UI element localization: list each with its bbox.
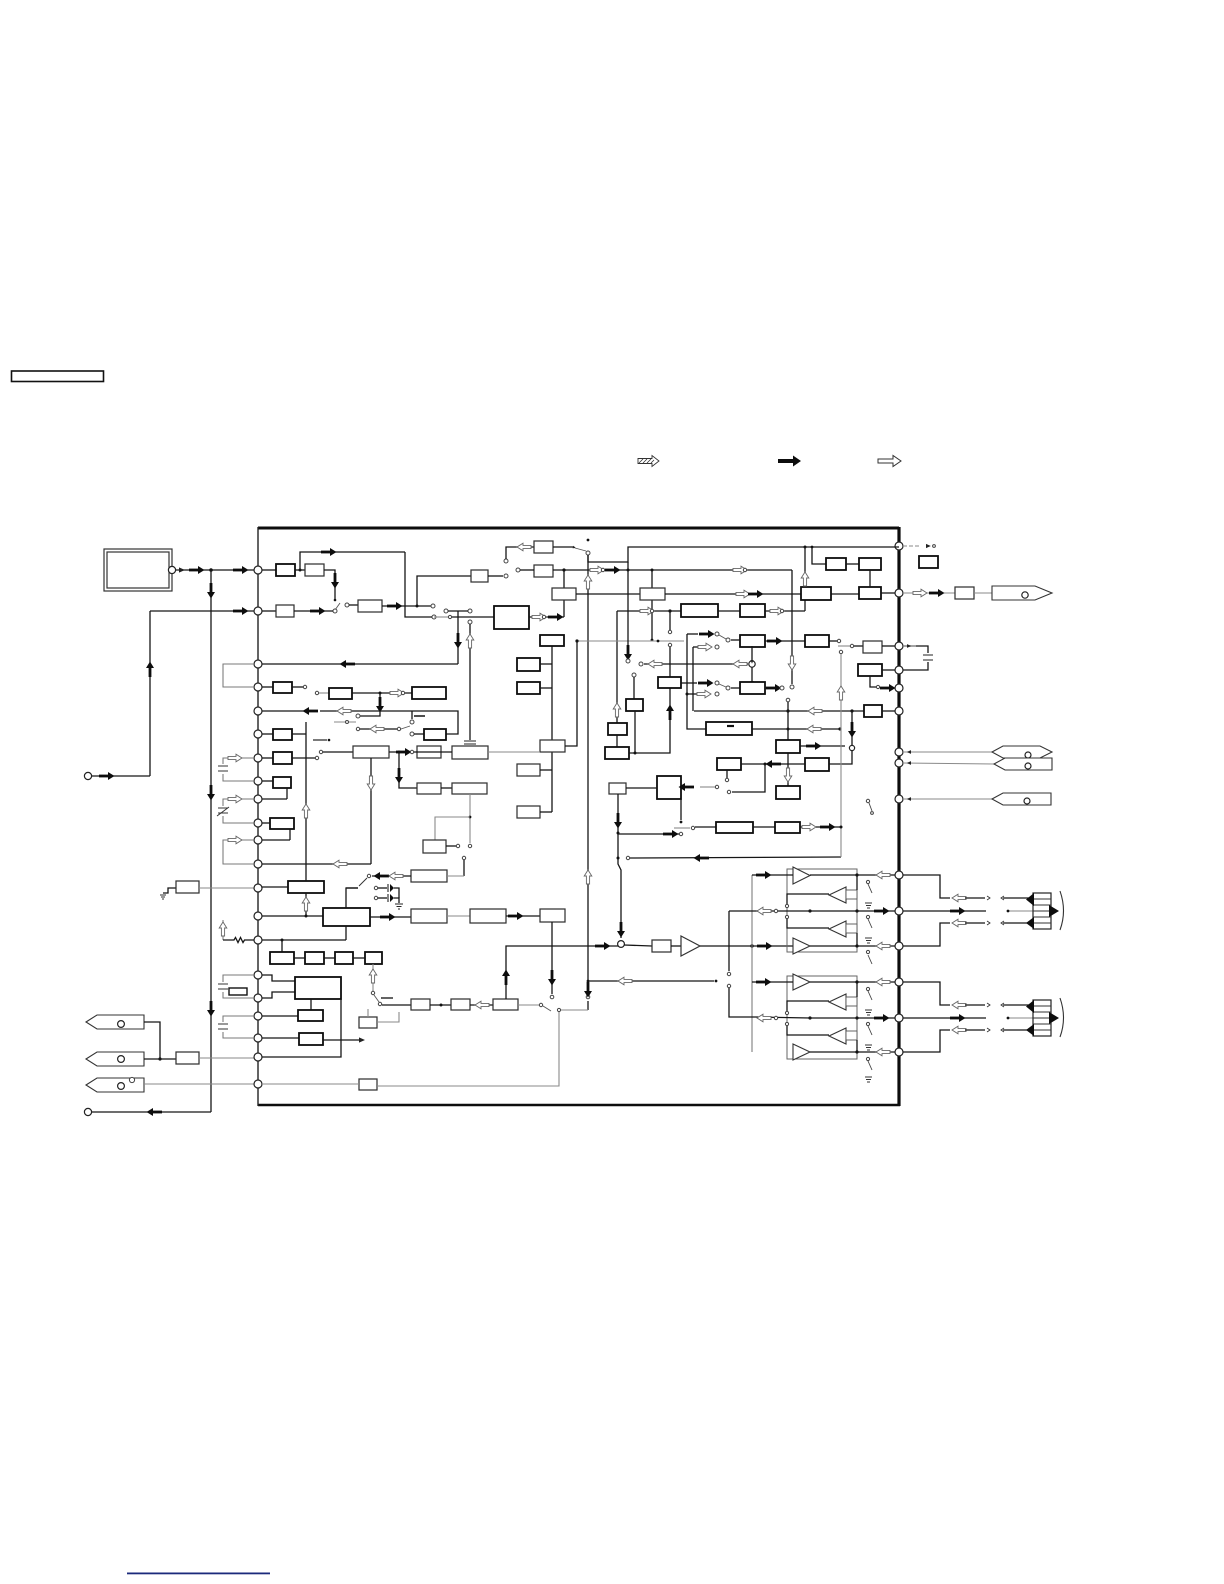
flow arrow A73 — [807, 725, 821, 733]
vertical x=470 — [468, 620, 472, 624]
wire W78 — [294, 957, 305, 959]
junction N103 — [787, 728, 790, 731]
pin646 stub out — [903, 645, 916, 647]
wire W33 — [804, 547, 806, 587]
signal arrow A71 — [666, 705, 674, 721]
wire W121 — [669, 611, 671, 630]
box row641 b — [805, 635, 829, 647]
wire W95 — [446, 845, 456, 847]
signal arrow A59 — [396, 748, 412, 756]
ch1 speaker connector — [1026, 891, 1064, 930]
wire W66 — [286, 788, 288, 799]
wire W140 — [753, 826, 775, 828]
symbol W202 — [1001, 1003, 1004, 1007]
signal arrow A11 — [321, 548, 337, 556]
switch contact N29 — [333, 609, 337, 613]
wire W10 — [144, 1058, 176, 1060]
flow arrow A52 — [228, 795, 242, 803]
symbol W104 — [387, 894, 389, 902]
ch1 out row 911 — [729, 910, 810, 912]
junction N54 — [668, 609, 671, 612]
wire W76 — [345, 926, 347, 940]
box B12 — [517, 682, 540, 694]
symbol W211 — [1026, 1000, 1034, 1013]
grey drop from box to switch 846 — [469, 794, 471, 843]
legend solid arrow — [778, 456, 801, 467]
row 940 — [262, 939, 346, 941]
row 711 wire to pin — [262, 710, 316, 712]
wire W161 — [868, 884, 872, 893]
box B25 — [776, 786, 800, 799]
wire W49 — [292, 686, 303, 688]
switch contact N127 — [785, 915, 788, 918]
switch contact N68 — [780, 686, 784, 690]
box osc lower — [534, 565, 553, 577]
IC left border — [257, 527, 259, 1106]
junction N84 — [281, 939, 284, 942]
switch contact N77 — [410, 732, 414, 736]
arrowhead A88 — [926, 544, 931, 548]
wire W98 — [346, 887, 358, 889]
signal arrow A110 — [950, 1014, 966, 1022]
box B20 — [540, 909, 565, 922]
box B23 — [493, 999, 518, 1010]
wire W86 — [540, 687, 552, 689]
ch2 out rows — [857, 981, 895, 983]
wire W130 — [880, 687, 894, 689]
flow arrow A75 — [808, 707, 822, 715]
wire W150 — [624, 945, 652, 946]
wire W155 — [856, 875, 858, 890]
box V row 764 — [805, 758, 829, 771]
box B14 — [517, 806, 540, 818]
flow arrow A49 — [337, 707, 351, 715]
symbol W149 — [992, 793, 1051, 805]
wire W110 — [374, 995, 379, 1002]
symbol W165 — [865, 938, 872, 943]
signal arrow A107 — [950, 907, 966, 915]
switch lever — [359, 878, 367, 886]
switch contact N35 — [504, 559, 508, 563]
mute switch column ch2 — [868, 991, 872, 1070]
arrowhead A16 — [573, 546, 577, 549]
pin546 stub — [903, 545, 921, 547]
box left row752 — [353, 746, 389, 758]
legend hatched arrow — [638, 456, 659, 467]
wire W156 — [787, 894, 829, 904]
wire W178 — [868, 1061, 872, 1070]
wire W138 — [626, 787, 657, 789]
ch1 wires to connector — [903, 875, 950, 898]
wire W54 — [414, 733, 424, 735]
wire W120 — [616, 735, 618, 747]
wire W143 — [840, 654, 842, 857]
video output flag — [992, 586, 1052, 600]
IC right border — [897, 527, 900, 1106]
box pin687 — [273, 682, 292, 693]
wire W55 — [334, 721, 356, 723]
switch contact N95 — [378, 1002, 381, 1005]
switch contact N55 — [780, 609, 783, 612]
signal arrow A83 — [663, 830, 679, 838]
row916 into IF box — [262, 915, 323, 917]
switch contact N78 — [346, 721, 349, 724]
connector flag B — [86, 1052, 258, 1066]
ch1 group outline — [787, 869, 857, 952]
wire W52 — [320, 710, 412, 712]
signal arrow A72 — [698, 679, 714, 687]
wire W205 — [903, 1030, 950, 1052]
flow arrow A68 — [475, 1001, 489, 1009]
wire W80 — [353, 957, 365, 959]
symbol W196 — [1049, 905, 1059, 917]
symbol W146 — [992, 746, 1052, 758]
wire W167 — [752, 981, 793, 983]
ch2 amp B3 inverted — [829, 1028, 846, 1044]
symbol W124 — [727, 725, 734, 727]
switch contact N40 — [601, 568, 604, 571]
node N3 — [118, 1021, 125, 1028]
junction N118 — [840, 826, 843, 829]
wire W18 — [488, 575, 503, 577]
signal arrow A3 — [233, 566, 249, 574]
junction N58 — [657, 640, 660, 643]
big box VCO — [494, 606, 529, 629]
box B11 — [299, 1033, 323, 1045]
vertical x=693 — [692, 647, 694, 711]
junction N141 — [855, 1016, 858, 1019]
wire W132 — [851, 711, 853, 745]
node N22 — [895, 748, 903, 756]
ch2 wires to connector — [903, 982, 950, 1005]
signal arrow A7 — [233, 607, 249, 615]
wire W56 — [360, 728, 397, 730]
flow arrow A98 — [757, 907, 771, 915]
symbol W214 — [1060, 998, 1064, 1037]
bus x=588 main vertical — [587, 555, 589, 995]
switch contact N146 — [866, 1057, 869, 1060]
switch contact N119 — [933, 545, 936, 548]
wire feedback row 552 — [300, 552, 405, 570]
switch contact N147 — [871, 812, 874, 815]
symbol W209 — [1001, 1028, 1004, 1032]
box B2 — [176, 1052, 199, 1064]
wire W119 — [262, 1083, 359, 1085]
symbol W83 — [218, 1024, 228, 1029]
junction N56 — [811, 546, 814, 549]
junction N73 — [379, 692, 382, 695]
switch contact N69 — [626, 659, 630, 663]
switch contact N76 — [410, 720, 414, 724]
ch1 out row 946 — [857, 945, 895, 947]
switch contact N60 — [726, 638, 730, 642]
flow arrow A38 — [697, 690, 711, 698]
wire W145 — [974, 592, 992, 594]
node N16 — [254, 994, 262, 1002]
arrowhead A43 — [750, 681, 753, 685]
node N108 — [849, 745, 854, 750]
external input node y=776 — [84, 772, 91, 779]
wire W61 — [262, 757, 273, 759]
wire W75 — [346, 888, 358, 908]
grey jog to next — [838, 645, 850, 647]
white arrow pair row 694 — [687, 693, 697, 695]
junction N104 — [838, 727, 841, 730]
switch contact N49 — [468, 609, 472, 613]
wire up to row547 — [506, 547, 534, 559]
flow arrow A84 — [802, 823, 816, 831]
flow arrow A35 — [801, 572, 809, 586]
wire W63 — [323, 751, 353, 753]
signal arrow A101 — [756, 978, 772, 986]
ch1 amp A4 — [793, 938, 810, 954]
vertical bus x=211 — [210, 570, 212, 1112]
symbol W197 — [1026, 917, 1034, 929]
flow arrow A56 — [302, 897, 310, 911]
switch contact N61 — [715, 692, 719, 696]
box B8 — [365, 952, 382, 964]
switch contact N59 — [715, 645, 719, 649]
symbol W60 — [313, 739, 327, 741]
vertical x=617 — [616, 611, 618, 723]
symbol W194 — [1033, 899, 1051, 923]
drop x=458 to row 664 — [457, 611, 459, 664]
symbol W210 — [1033, 1006, 1051, 1030]
symbol W2 — [639, 459, 654, 463]
wire W25 — [469, 624, 471, 740]
node N10 — [254, 707, 262, 715]
wire W51 — [352, 692, 412, 694]
wire W206 — [965, 1029, 985, 1031]
switch contact N90 — [462, 856, 465, 859]
flow arrow A23 — [584, 870, 592, 884]
monitor (CRT) block — [104, 549, 176, 591]
node N25 — [895, 978, 903, 986]
wire W127 — [882, 710, 895, 712]
x=628 vertical w arrow to contact 664 — [627, 562, 629, 658]
flag pin 799 — [903, 798, 992, 800]
switch lever row 605 — [335, 603, 340, 610]
box B13 — [517, 764, 540, 776]
switch contact N32 — [432, 615, 436, 619]
box B9 — [295, 977, 341, 999]
switch contact N7 — [129, 1077, 134, 1082]
signal arrow A70 — [595, 942, 611, 950]
wire W117 — [367, 1009, 369, 1017]
ch2 amp B1 — [793, 974, 810, 990]
switch contact N85 — [410, 750, 413, 753]
wire W79 — [324, 957, 335, 959]
wire W122 — [681, 682, 697, 684]
wire W62 — [292, 757, 315, 759]
wire row 833 — [618, 833, 679, 835]
box pin1038 — [262, 1037, 299, 1039]
wire W188 — [1008, 910, 1049, 912]
wire W87 — [540, 769, 552, 771]
node N17 — [254, 1034, 262, 1042]
box audio low pass row 693 — [412, 687, 446, 699]
wire W114 — [470, 1004, 493, 1006]
wire W35 — [869, 570, 871, 587]
wire W190 — [965, 922, 985, 924]
switch contact N139 — [785, 1022, 788, 1025]
arrowhead A1 — [179, 567, 185, 572]
symbol W179 — [865, 1010, 872, 1015]
switch contact N82 — [319, 750, 322, 753]
wire W34 — [846, 563, 859, 565]
wire W116 — [543, 1006, 551, 1011]
wire W113 — [430, 1004, 451, 1006]
wire loop to pll box right — [412, 711, 458, 734]
drop x=792 to switch contact — [791, 570, 793, 684]
box after FM det — [740, 604, 765, 617]
wire W72 — [262, 886, 288, 888]
grey wire row 594 — [552, 588, 576, 600]
wire W141 — [800, 826, 812, 828]
switch contact N72 — [315, 691, 318, 694]
switch contact N74 — [401, 691, 404, 694]
flow arrow A109 — [952, 1001, 966, 1009]
switch contact N117 — [691, 826, 694, 829]
bus x=306 — [305, 722, 307, 881]
wire W91 — [389, 751, 410, 753]
junction N114 — [617, 857, 620, 860]
wire row 570 left — [262, 569, 276, 571]
switch contact N131 — [774, 909, 777, 912]
wire W109 — [506, 915, 540, 917]
wire W183 — [965, 897, 985, 899]
wire W162 — [868, 919, 872, 928]
riser x=506 to row 946 — [506, 946, 619, 999]
node N123 — [1024, 798, 1030, 804]
signal arrow A64 — [380, 913, 396, 921]
wire W151 — [671, 945, 681, 947]
box B15 — [417, 746, 441, 758]
wire W163 — [868, 955, 872, 964]
switch contact N135 — [727, 972, 730, 975]
box AGC row606 — [358, 600, 382, 612]
switch contact N134 — [866, 950, 869, 953]
box B7 — [335, 952, 353, 964]
row 564 top right chain — [812, 547, 826, 564]
wide delay box row 729 — [706, 722, 752, 735]
wire W189 — [903, 923, 950, 946]
junction N4 — [158, 1057, 161, 1060]
ch2 group outline — [787, 976, 857, 1059]
wire W176 — [868, 991, 872, 1000]
node N26 — [895, 1048, 903, 1056]
junction N39 — [804, 546, 807, 549]
wire W90 — [488, 751, 540, 753]
signal arrow A12 — [331, 573, 339, 589]
wire W70 — [289, 829, 291, 840]
symbol W195 — [1026, 893, 1034, 906]
osc box right wire — [447, 875, 464, 877]
box row711 to pin — [864, 705, 882, 717]
junction N137 — [855, 980, 858, 983]
wire W134 — [741, 763, 805, 765]
signal arrow A81 — [614, 813, 622, 829]
switch contact N75 — [356, 714, 360, 718]
box row646 c — [863, 641, 882, 653]
flow arrow A67 — [369, 969, 377, 983]
wire W42 — [882, 645, 895, 647]
wire W38 — [731, 639, 740, 641]
wire 1057 up right edge of big box — [262, 999, 341, 1057]
wire W159 — [810, 945, 857, 947]
box osc upper — [534, 541, 553, 553]
node N23 — [895, 795, 903, 803]
riser x=805 through box to row 547 — [804, 600, 806, 611]
switch contact N34 — [504, 574, 508, 578]
osc box — [411, 870, 447, 882]
wire W32 — [765, 610, 805, 612]
node N14 — [254, 884, 262, 892]
wire W203 — [903, 1017, 986, 1019]
mute switch column ch1 — [868, 884, 872, 964]
box pin1016 — [262, 1015, 298, 1017]
switch contact N145 — [866, 1022, 869, 1025]
wire W4 — [92, 1111, 211, 1113]
signal arrow A36 — [699, 630, 715, 638]
junction N113 — [617, 832, 620, 835]
signal arrow A61 — [395, 768, 403, 784]
junction N41 — [627, 569, 630, 572]
switch contact N132 — [866, 880, 869, 883]
junction N27 — [299, 569, 302, 572]
wire W22 — [587, 1001, 589, 1010]
junction N28 — [334, 599, 337, 602]
connector flag C — [86, 1077, 258, 1092]
node N9 — [254, 660, 262, 668]
node N12 — [254, 795, 262, 803]
wire W57 — [401, 726, 410, 729]
symbol W184 — [987, 896, 990, 900]
loop pins 758-781 with cap — [223, 758, 254, 781]
wire W172 — [856, 1040, 858, 1052]
node N19 — [895, 542, 903, 550]
signal arrow A90 — [929, 589, 945, 597]
box B10 — [298, 1010, 323, 1021]
wire row562 to corner 628 up to row 547 — [588, 547, 899, 562]
switch contact N98 — [557, 1008, 560, 1011]
signal arrow A8 — [146, 662, 154, 678]
signal arrow A95 — [757, 942, 773, 950]
signal arrow A99 — [874, 907, 890, 915]
signal arrow A76 — [880, 684, 896, 692]
vertical drop x=405 from row552 — [405, 552, 432, 617]
vertical x=150 — [149, 611, 151, 776]
switch contact N92 — [374, 896, 377, 899]
signal arrow A96 — [756, 871, 772, 879]
box row594 — [640, 588, 665, 600]
wire W41 — [854, 645, 863, 647]
wire W69 — [262, 822, 270, 824]
row570 output chain — [553, 569, 792, 571]
switch contact N50 — [448, 615, 451, 618]
wire W31 — [718, 610, 740, 612]
box discriminator row688 — [740, 682, 765, 694]
signal arrow A10 — [147, 1108, 163, 1116]
box B3 — [801, 587, 831, 600]
switch contact N107 — [876, 685, 879, 688]
box pin734 — [273, 729, 292, 740]
signal arrow A9 — [99, 772, 115, 780]
junction N116 — [680, 821, 683, 824]
box straddling x670 row 683 — [658, 677, 681, 688]
long wire row 864 — [262, 863, 371, 865]
node N20 — [895, 642, 903, 650]
